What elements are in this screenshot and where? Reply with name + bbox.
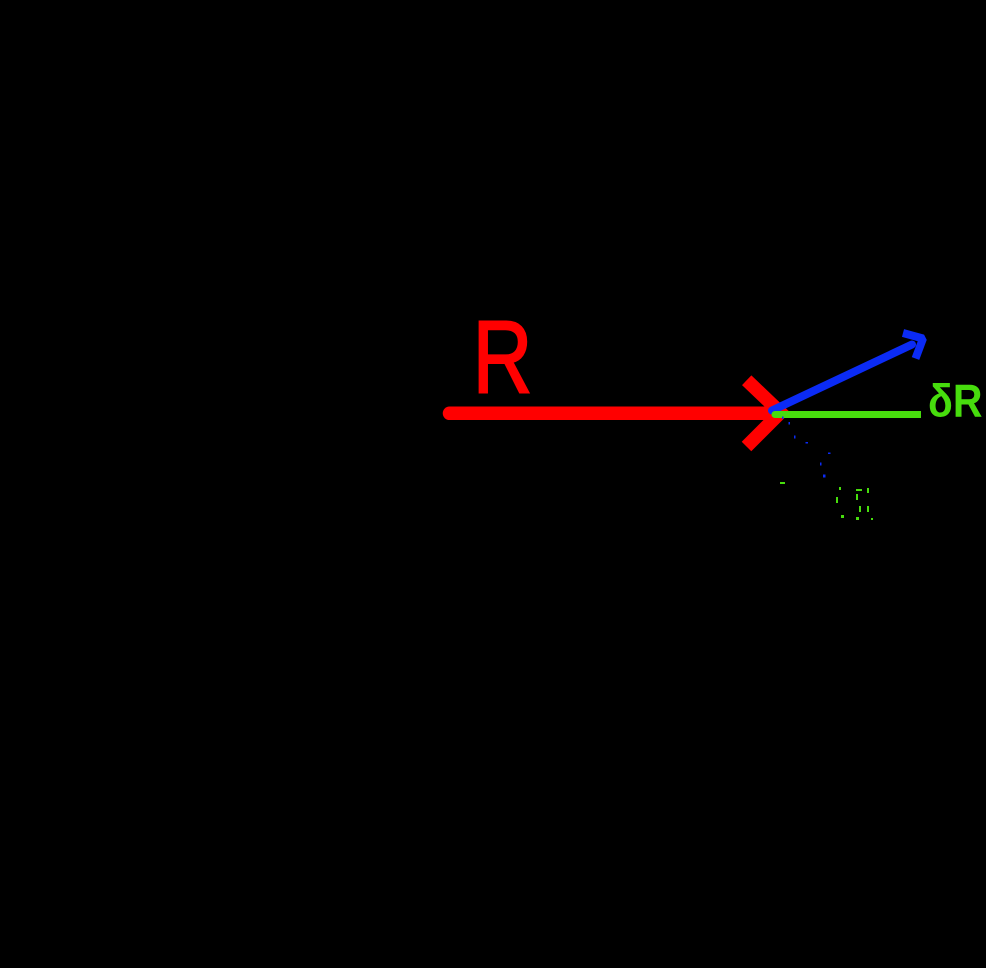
svg-text:δR: δR <box>928 375 982 427</box>
svg-text:R: R <box>473 299 533 415</box>
